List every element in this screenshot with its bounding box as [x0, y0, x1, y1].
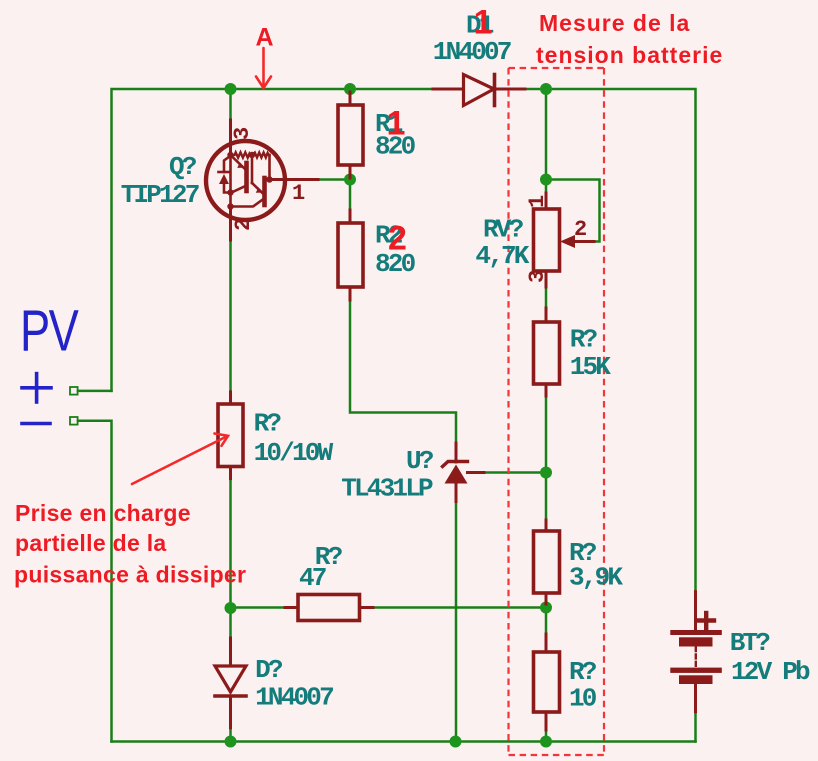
- junction D? bottom rail: [225, 736, 237, 748]
- PV minus terminal square: [70, 417, 78, 425]
- resistor R39K body: [534, 531, 560, 593]
- regulator U TL431 anode triangle: [445, 465, 468, 484]
- junction R10 bottom rail: [540, 736, 552, 748]
- wire TL431 ref to divider node: [484, 471, 546, 474]
- resistor R dissip pins: [229, 392, 232, 404]
- diode D? cathode pin: [229, 696, 232, 728]
- regulator U TL431 cathode bar with bend: [443, 462, 468, 467]
- svg-text:47: 47: [299, 563, 326, 593]
- resistor R15K pins: [545, 308, 548, 322]
- resistor R10 body: [534, 652, 560, 712]
- transistor Q1 circle: [206, 141, 285, 220]
- diode D1 anode pin: [433, 88, 464, 91]
- wire R1 top pin connection: [349, 89, 352, 92]
- annotation arrow to dissipation resistor: [132, 434, 228, 485]
- wire top rail right (D1 cathode to battery top): [525, 89, 696, 592]
- wire bottom rail: [112, 740, 696, 743]
- wire PV plus stub: [78, 390, 112, 393]
- transistor Q1 internal diode loop: [224, 156, 231, 173]
- wire base to divider: [318, 178, 350, 181]
- wire D? cathode to bottom rail: [229, 728, 232, 742]
- PV plus terminal square: [70, 387, 78, 395]
- svg-text:BT?: BT?: [730, 628, 771, 658]
- transistor Q1 internal resistor zigzag 2: [252, 153, 270, 158]
- diode D1 cathode bar: [493, 75, 497, 106]
- svg-text:820: 820: [375, 249, 416, 279]
- junction node A top emitter: [225, 83, 237, 95]
- transistor Q1 driver emitter diagonal with arrow: [232, 156, 245, 169]
- svg-text:820: 820: [375, 132, 416, 162]
- svg-text:R?: R?: [569, 657, 597, 687]
- transistor Q1 output emitter diagonal with arrow: [252, 183, 263, 193]
- regulator U TL431 cathode pin: [455, 443, 458, 462]
- svg-text:Q?: Q?: [169, 152, 197, 182]
- svg-text:1: 1: [525, 195, 550, 208]
- svg-text:TIP127: TIP127: [121, 180, 199, 210]
- resistor R47 body: [298, 595, 360, 621]
- wire TL431 anode to bottom rail: [455, 502, 458, 742]
- svg-text:3: 3: [525, 270, 550, 283]
- PV plus sign: [22, 386, 51, 390]
- svg-text:A: A: [256, 24, 274, 52]
- junction pot top node: [540, 174, 552, 186]
- diode D? cathode bar: [215, 694, 246, 698]
- wire ref node to R39K: [545, 604, 548, 634]
- battery BT top pin: [694, 592, 697, 630]
- resistor R47 pins: [285, 606, 298, 609]
- wire R1-R2 junction: [349, 178, 352, 210]
- junction D1 cathode node: [540, 83, 552, 95]
- wire R47 left: [232, 606, 285, 609]
- wire top rail left (PV+ to D1 anode): [112, 89, 434, 391]
- junction TL431 bottom rail: [450, 736, 462, 748]
- svg-text:2: 2: [231, 219, 256, 231]
- transistor Q1 driver collector diagonal: [232, 186, 246, 193]
- wire pot wiper loop: [548, 180, 600, 242]
- svg-text:1N4007: 1N4007: [433, 37, 511, 67]
- resistor R2 body: [338, 223, 363, 287]
- resistor R1 pins: [349, 92, 352, 105]
- potentiometer RV body: [534, 209, 560, 271]
- wire pot pin3 to R15K: [545, 287, 548, 308]
- red dashed measurement box: [509, 68, 605, 755]
- battery BT plate 4 short: [679, 675, 713, 684]
- junction base node: [344, 174, 356, 186]
- transistor Q1 output collector diagonal: [231, 199, 264, 207]
- svg-text:10/10W: 10/10W: [254, 438, 334, 468]
- transistor Q1 internal diode triangle: [219, 174, 229, 184]
- transistor Q1 left vertical collector run: [229, 155, 232, 206]
- svg-text:partielle de la: partielle de la: [15, 530, 167, 556]
- transistor Q1 internal R right drop: [268, 155, 271, 180]
- resistor R1 body: [338, 105, 363, 165]
- transistor Q1 internal junction dots: [227, 152, 233, 158]
- svg-text:R?: R?: [570, 325, 598, 355]
- transistor Q1 output base bar: [262, 178, 267, 205]
- potentiometer RV pins: [545, 193, 548, 209]
- wire R dissip bottom to node: [229, 479, 232, 638]
- wire PV minus stub and left rail down: [78, 421, 112, 742]
- svg-text:3,9K: 3,9K: [569, 563, 623, 593]
- transistor Q1 internal resistor zigzag 1: [231, 152, 252, 157]
- diode D? anode pin: [229, 638, 232, 666]
- battery BT plate 1 long: [670, 630, 722, 635]
- wire R10 bottom to bottom rail: [545, 730, 548, 742]
- transistor Q1 internal R mid drop: [251, 155, 254, 183]
- wire emitter column top: [229, 89, 232, 120]
- battery BT internal dashed link: [695, 647, 697, 667]
- wire R47 right to divider node: [373, 606, 544, 609]
- wire R2 bottom to TL431 cathode: [350, 300, 456, 443]
- junction R1 top: [344, 83, 356, 95]
- PV minus sign: [22, 422, 50, 426]
- regulator U TL431 ref pin: [468, 471, 485, 474]
- battery BT plus sign: [699, 618, 715, 622]
- svg-text:U?: U?: [406, 446, 434, 476]
- svg-text:3: 3: [230, 127, 255, 140]
- potentiometer RV wiper arrow: [560, 235, 575, 248]
- resistor R10 pins: [545, 634, 548, 652]
- svg-text:1N4007: 1N4007: [255, 683, 333, 713]
- wire right column top (D1 node down to pot): [545, 89, 548, 193]
- battery BT plate 3 long: [670, 668, 722, 673]
- resistor R dissip body: [218, 404, 243, 467]
- junction collector-R47 node: [225, 602, 237, 614]
- transistor Q1 internal diode bar: [219, 171, 230, 174]
- junction ref node: [540, 467, 552, 479]
- PV connector symbols: [70, 387, 78, 425]
- svg-text:1: 1: [474, 4, 493, 42]
- battery BT bottom pin: [694, 684, 697, 712]
- battery BT plate 2 short: [679, 637, 713, 646]
- svg-text:PV: PV: [20, 299, 79, 364]
- svg-text:12V Pb: 12V Pb: [731, 657, 810, 687]
- svg-text:15K: 15K: [570, 352, 612, 382]
- diode D1 triangle: [464, 75, 495, 106]
- diode D? triangle: [215, 666, 246, 692]
- transistor Q1 driver base bar: [244, 163, 249, 191]
- svg-text:Mesure de la: Mesure de la: [539, 10, 690, 36]
- junction divider mid node: [540, 602, 552, 614]
- svg-text:1: 1: [292, 181, 305, 206]
- wire R15K to ref node: [545, 396, 548, 520]
- svg-text:2: 2: [574, 217, 586, 242]
- wire battery bottom lead: [694, 712, 697, 742]
- transistor Q1 collector pin: [229, 206, 232, 240]
- svg-text:Prise en charge: Prise en charge: [15, 500, 191, 526]
- diode D1 cathode pin: [495, 88, 526, 91]
- svg-text:4,7K: 4,7K: [475, 241, 529, 271]
- wire collector column to R dissip: [229, 240, 232, 392]
- transistor Q1 base pin: [269, 178, 318, 181]
- regulator U TL431 anode pin: [455, 484, 458, 502]
- svg-text:TL431LP: TL431LP: [341, 474, 433, 504]
- svg-text:D?: D?: [255, 655, 283, 685]
- svg-text:R?: R?: [254, 409, 282, 439]
- svg-text:puissance à dissiper: puissance à dissiper: [14, 561, 246, 587]
- annotation arrow A: [256, 48, 271, 88]
- svg-text:10: 10: [569, 684, 597, 714]
- resistor R39K pins: [545, 520, 548, 531]
- resistor R15K body: [534, 322, 560, 384]
- svg-text:tension batterie: tension batterie: [536, 42, 723, 68]
- transistor Q1 emitter pin: [229, 120, 232, 155]
- resistor R2 pins: [349, 210, 352, 223]
